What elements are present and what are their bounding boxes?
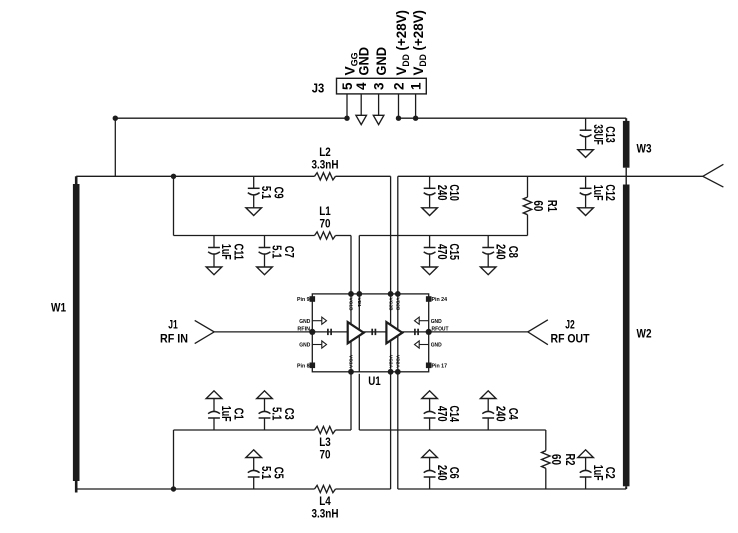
- svg-text:1uF: 1uF: [219, 244, 233, 260]
- U1 pin dot VD2A: [395, 369, 401, 375]
- capacitor C7: [257, 236, 296, 275]
- svg-text:Pin 24: Pin 24: [432, 297, 448, 303]
- svg-text:R2: R2: [563, 454, 577, 466]
- svg-text:1uF: 1uF: [591, 465, 605, 481]
- wire junction drop bottom: [173, 430, 175, 489]
- svg-text:240: 240: [435, 185, 449, 201]
- svg-text:C6: C6: [447, 467, 461, 479]
- resistor R1: [523, 176, 559, 235]
- U1 RF path wire: [312, 331, 428, 333]
- svg-text:5.1: 5.1: [270, 245, 284, 258]
- capacitor C2: [578, 450, 617, 489]
- svg-text:C4: C4: [506, 408, 520, 420]
- svg-text:GND: GND: [356, 47, 372, 76]
- connector J1: [160, 320, 214, 346]
- svg-text:J3: J3: [312, 81, 325, 96]
- svg-text:Pin 9: Pin 9: [297, 297, 310, 303]
- svg-text:VD1: VD1: [356, 298, 362, 308]
- U1 pin label VG1B: [348, 298, 354, 312]
- capacitor C14: [422, 391, 461, 430]
- ground at J3 pin 4: [356, 94, 367, 125]
- U1 GND pin upper-right: [415, 317, 442, 325]
- svg-text:VG2A: VG2A: [387, 355, 393, 369]
- microstrip W3: [623, 118, 652, 184]
- ground at J3 pin 3: [373, 94, 384, 125]
- svg-text:C8: C8: [506, 246, 520, 258]
- svg-text:1uF: 1uF: [219, 406, 233, 422]
- svg-text:60: 60: [531, 200, 545, 211]
- J3 pin 4 label GND: [356, 47, 372, 76]
- U1 amplifier stage 2: [386, 322, 402, 343]
- svg-text:2: 2: [391, 83, 406, 91]
- capacitor C4: [480, 391, 519, 430]
- svg-text:C11: C11: [232, 244, 246, 261]
- svg-text:C1: C1: [232, 408, 246, 420]
- svg-text:GND: GND: [299, 319, 310, 325]
- inductor L1: [315, 204, 336, 239]
- wire VG2B feed: [390, 176, 392, 294]
- J3 pin numbers 5 4 3 2 1: [340, 82, 424, 90]
- svg-text:240: 240: [493, 244, 507, 260]
- wire row A right: [398, 175, 703, 177]
- U1 pin label VG2B: [387, 298, 393, 312]
- U1 pin dot VG1B: [348, 291, 354, 297]
- svg-text:C15: C15: [447, 244, 461, 261]
- U1 pin label VD2A: [395, 355, 401, 368]
- svg-text:240: 240: [493, 406, 507, 422]
- wire VG1B feed: [350, 236, 352, 294]
- U1 corner pin square Pin 9: [297, 296, 315, 303]
- svg-text:GND: GND: [431, 343, 442, 349]
- wire junction drop left: [173, 176, 175, 235]
- svg-text:J2: J2: [565, 320, 575, 332]
- capacitor C9: [246, 176, 285, 215]
- junction dot at J3 pin 1: [413, 116, 418, 121]
- svg-text:1uF: 1uF: [591, 185, 605, 201]
- svg-text:RF IN: RF IN: [160, 334, 188, 346]
- U1 pin label VD2B: [395, 298, 401, 311]
- svg-text:Pin 17: Pin 17: [432, 363, 448, 369]
- U1 corner pin square Pin 8: [297, 363, 315, 370]
- U1 pin dot VD2B: [395, 291, 401, 297]
- J3 pin 1 label VDD (+28V): [410, 10, 428, 76]
- wire VG1A feed: [350, 372, 352, 430]
- U1 amplifier stage 1: [348, 322, 364, 343]
- wire row B right: [359, 235, 527, 237]
- svg-text:W1: W1: [51, 301, 66, 315]
- svg-text:VG1A: VG1A: [348, 355, 354, 369]
- U1 corner pin square Pin 17: [426, 363, 447, 370]
- capacitor C15: [422, 236, 461, 275]
- svg-text:60: 60: [549, 454, 563, 465]
- inductor L3: [315, 426, 336, 461]
- capacitor C6: [422, 450, 461, 489]
- U1 pin label VD1: [356, 298, 362, 308]
- wire VGG rail: [115, 117, 347, 119]
- node RFIN: [297, 326, 315, 335]
- capacitor C12: [578, 176, 617, 215]
- U1 pin dot VG1A: [348, 369, 354, 375]
- U1 pin label VG2A: [387, 355, 393, 369]
- svg-text:70: 70: [320, 217, 331, 231]
- U1 pin dot VG2B: [388, 291, 394, 297]
- svg-text:VDD (+28V): VDD (+28V): [410, 10, 428, 76]
- svg-text:C12: C12: [603, 184, 617, 201]
- U1 internal wire VG2B-VG2A: [390, 294, 392, 372]
- svg-text:U1: U1: [368, 376, 381, 388]
- junction dot row D: [171, 486, 176, 491]
- svg-text:Pin 8: Pin 8: [297, 363, 310, 369]
- J3 pin 5 stub wire: [346, 94, 348, 118]
- U1 internal wire VD1: [358, 294, 360, 372]
- svg-text:3.3nH: 3.3nH: [312, 506, 339, 520]
- wire VG2A feed: [390, 372, 392, 489]
- svg-text:470: 470: [435, 244, 449, 260]
- wire VD1 feed: [358, 236, 360, 294]
- svg-text:5.1: 5.1: [259, 186, 273, 199]
- inductor L2: [312, 145, 339, 180]
- svg-text:C5: C5: [271, 467, 285, 479]
- svg-text:R1: R1: [545, 200, 559, 212]
- svg-text:3.3nH: 3.3nH: [312, 157, 339, 171]
- wire row D right: [398, 488, 626, 490]
- microstrip W1: [51, 176, 80, 492]
- junction dot VGG rail left end: [113, 116, 118, 121]
- svg-text:C7: C7: [282, 246, 296, 258]
- wire row C right: [359, 429, 546, 431]
- capacitor C10: [422, 176, 461, 215]
- svg-text:VG2B: VG2B: [387, 298, 393, 312]
- connector J2: [528, 320, 590, 346]
- U1 GND pin upper-left: [299, 317, 326, 325]
- capacitor C11: [206, 236, 245, 275]
- wire row A left: [76, 175, 390, 177]
- node RFOUT: [426, 326, 449, 335]
- wire VGG drop: [114, 118, 116, 176]
- U1 interstage coupling capacitor: [372, 329, 375, 335]
- svg-text:RF OUT: RF OUT: [551, 334, 590, 346]
- U1 internal wire VG1B-VG1A: [350, 294, 352, 372]
- J3 pin 5 label VGG: [341, 53, 359, 76]
- svg-text:70: 70: [320, 447, 331, 461]
- wire VD1A feed: [358, 374, 360, 430]
- J3 pin 2 stub wire: [398, 94, 400, 118]
- svg-text:C3: C3: [282, 408, 296, 420]
- svg-text:J1: J1: [168, 320, 178, 332]
- svg-text:4: 4: [354, 82, 369, 90]
- U1 GND pin lower-left: [299, 341, 326, 349]
- wire J1 to U1: [214, 331, 312, 333]
- wire VD2A feed: [397, 372, 399, 489]
- connector output stub right: [703, 164, 724, 187]
- svg-text:33UF: 33UF: [591, 124, 605, 145]
- svg-text:240: 240: [435, 465, 449, 481]
- svg-text:1: 1: [408, 82, 423, 90]
- svg-text:VG1B: VG1B: [348, 298, 354, 312]
- U1 pin label VG1A: [348, 355, 354, 369]
- wire VDD rail: [399, 117, 627, 119]
- svg-text:W2: W2: [637, 327, 652, 341]
- wire row B left: [174, 235, 352, 237]
- capacitor C3: [257, 391, 296, 430]
- U1 pin dot VG2A: [388, 369, 394, 375]
- resistor R2: [542, 430, 578, 489]
- capacitor C8: [480, 236, 519, 275]
- connector J3 body: [312, 78, 427, 95]
- svg-text:C9: C9: [271, 187, 285, 199]
- wire row C left: [174, 429, 352, 431]
- svg-text:GND: GND: [431, 319, 442, 325]
- U1 corner pin square Pin 24: [426, 296, 448, 303]
- J3 pin 3 label GND: [373, 47, 389, 76]
- svg-text:5: 5: [340, 82, 355, 90]
- junction dot at J3 pin 2: [396, 116, 401, 121]
- svg-text:VD2B: VD2B: [395, 298, 401, 311]
- junction dot at J3 pin 5: [344, 116, 349, 121]
- capacitor C1: [206, 391, 245, 430]
- svg-text:GND: GND: [299, 343, 310, 349]
- svg-text:GND: GND: [373, 47, 389, 76]
- U1 GND pin lower-right: [415, 341, 442, 349]
- svg-text:5.1: 5.1: [259, 466, 273, 479]
- U1 output coupling capacitor: [415, 329, 418, 335]
- svg-text:VDD (+28V): VDD (+28V): [393, 10, 411, 76]
- op-amp U1 body: [312, 294, 428, 388]
- wire U1 to J2: [429, 331, 528, 333]
- J3 pin 2 label VDD (+28V): [393, 10, 411, 76]
- svg-text:C2: C2: [603, 467, 617, 479]
- U1 input coupling capacitor: [328, 329, 331, 335]
- junction dot row A: [171, 174, 176, 179]
- wire VD2B feed: [397, 176, 399, 294]
- svg-text:5.1: 5.1: [270, 407, 284, 420]
- wire row D left: [76, 488, 390, 490]
- svg-text:VD2A: VD2A: [395, 355, 401, 368]
- svg-text:C10: C10: [447, 184, 461, 201]
- svg-text:470: 470: [435, 406, 449, 422]
- svg-text:W3: W3: [637, 142, 652, 156]
- capacitor C5: [246, 450, 285, 489]
- svg-text:C13: C13: [603, 126, 617, 143]
- inductor L4: [312, 485, 339, 520]
- capacitor C13: [578, 118, 617, 157]
- microstrip W2: [623, 185, 652, 490]
- U1 pin dot VD1: [356, 291, 362, 297]
- U1 internal wire VD2B-VD2A: [397, 294, 399, 372]
- J3 pin 1 stub wire: [415, 94, 417, 118]
- svg-text:3: 3: [371, 82, 386, 90]
- svg-text:C14: C14: [447, 405, 461, 422]
